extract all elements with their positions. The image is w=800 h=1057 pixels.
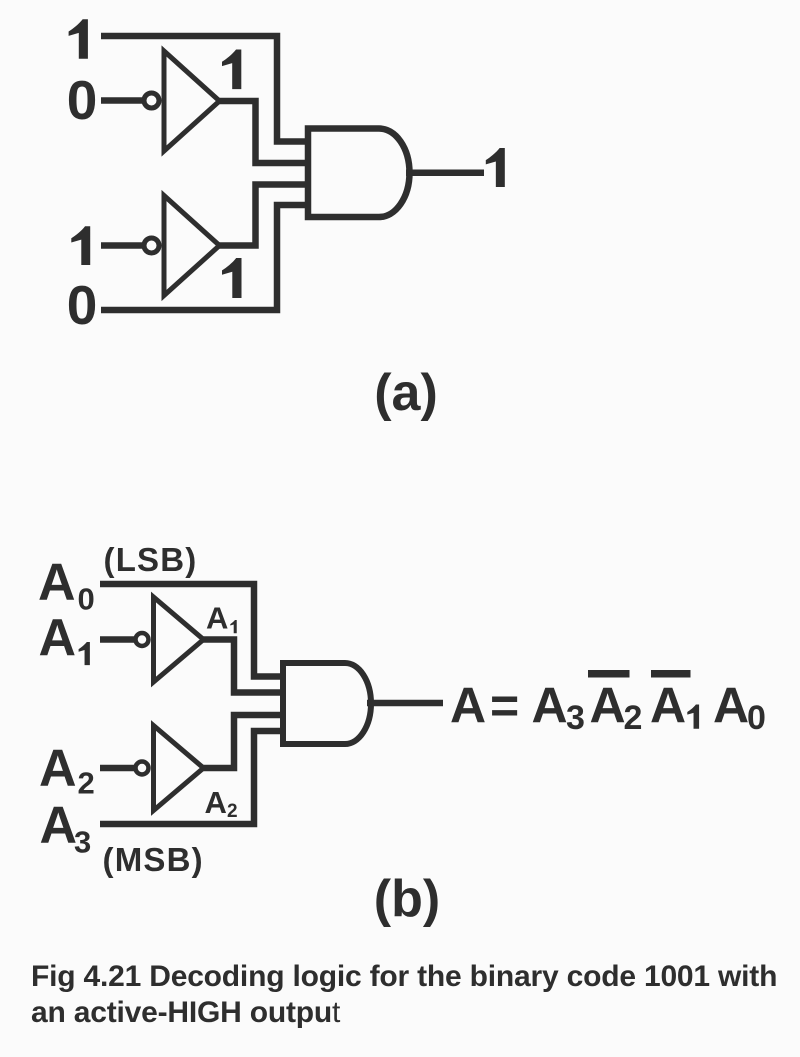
- svg-text:A: A: [532, 678, 568, 734]
- wire: input 1 (top) to AND gate U3 pin 1: [101, 36, 308, 142]
- inverter U2 triangle: [164, 196, 220, 296]
- value label 1 (U1 output): [222, 50, 241, 90]
- value label 1 (AND output): [486, 148, 505, 187]
- svg-text:3: 3: [566, 699, 585, 737]
- inverter U4 triangle: [154, 597, 204, 682]
- wire: AND gate U3 output: [406, 170, 484, 177]
- svg-text:3: 3: [74, 825, 91, 860]
- svg-text:A: A: [39, 740, 77, 798]
- svg-text:2: 2: [78, 766, 95, 801]
- svg-text:2: 2: [227, 801, 238, 822]
- inverter U1 triangle: [164, 51, 220, 151]
- svg-text:=: =: [490, 678, 519, 734]
- wire: input 0 (bottom) to AND gate U3 pin 4: [101, 205, 308, 310]
- svg-text:A: A: [40, 797, 78, 855]
- AND gate U6: [283, 663, 371, 744]
- wire: node A0 to AND gate U6 pin 1: [100, 584, 283, 677]
- inverter U1 input bubble: [144, 93, 159, 108]
- svg-text:A: A: [38, 554, 76, 612]
- svg-text:A: A: [450, 678, 486, 734]
- overbar on A1: [651, 670, 691, 678]
- svg-text:0: 0: [67, 69, 98, 131]
- svg-text:(b): (b): [374, 870, 440, 928]
- node A1 subscript: [79, 642, 90, 665]
- AND gate U3: [308, 129, 409, 218]
- svg-text:an active-HIGH output: an active-HIGH output: [31, 996, 341, 1029]
- inverter U2 input bubble: [144, 238, 159, 253]
- overbar on A2: [588, 670, 630, 678]
- inverter U4 input bubble: [136, 633, 149, 646]
- inverter U5 triangle: [154, 726, 204, 811]
- value label 1 (top input): [69, 19, 88, 59]
- wire: input 1 (lower) to inverter U2 bubble: [101, 242, 144, 249]
- wire: inverter U2 output to AND gate U3 pin 3: [220, 185, 309, 246]
- wire: node A3 to AND gate U6 pin 4: [100, 731, 283, 824]
- svg-text:0: 0: [747, 699, 766, 737]
- net label A1 subscript: [230, 620, 236, 633]
- svg-text:(MSB): (MSB): [103, 841, 204, 878]
- wire: inverter U1 output to AND gate U3 pin 2: [220, 101, 309, 163]
- svg-text:A: A: [206, 601, 228, 636]
- wire: input 0 to inverter U1 bubble: [101, 97, 144, 104]
- svg-text:A: A: [205, 785, 227, 820]
- svg-text:A: A: [39, 609, 77, 667]
- svg-text:(a): (a): [374, 364, 438, 422]
- wire: AND gate U6 output to node A: [367, 700, 443, 707]
- equation A1 subscript: [687, 705, 699, 729]
- svg-text:A: A: [590, 678, 626, 734]
- svg-text:Fig 4.21 Decoding logic for th: Fig 4.21 Decoding logic for the binary c…: [31, 960, 777, 993]
- wire: node A1 to inverter U4 bubble: [100, 636, 136, 643]
- svg-text:2: 2: [624, 699, 643, 737]
- value label 1 (U2 output): [222, 258, 242, 298]
- wire: inverter U5 output to AND gate U6 pin 3: [204, 715, 284, 768]
- svg-text:0: 0: [78, 582, 95, 617]
- inverter U5 input bubble: [136, 762, 149, 775]
- svg-text:A: A: [650, 678, 686, 734]
- svg-text:0: 0: [67, 274, 98, 336]
- svg-text:A: A: [713, 678, 749, 734]
- value label 1 (input to U2): [71, 226, 90, 265]
- wire: inverter U4 output to AND gate U6 pin 2: [204, 640, 284, 693]
- svg-text:(LSB): (LSB): [104, 541, 198, 578]
- wire: node A2 to inverter U5 bubble: [100, 765, 136, 772]
